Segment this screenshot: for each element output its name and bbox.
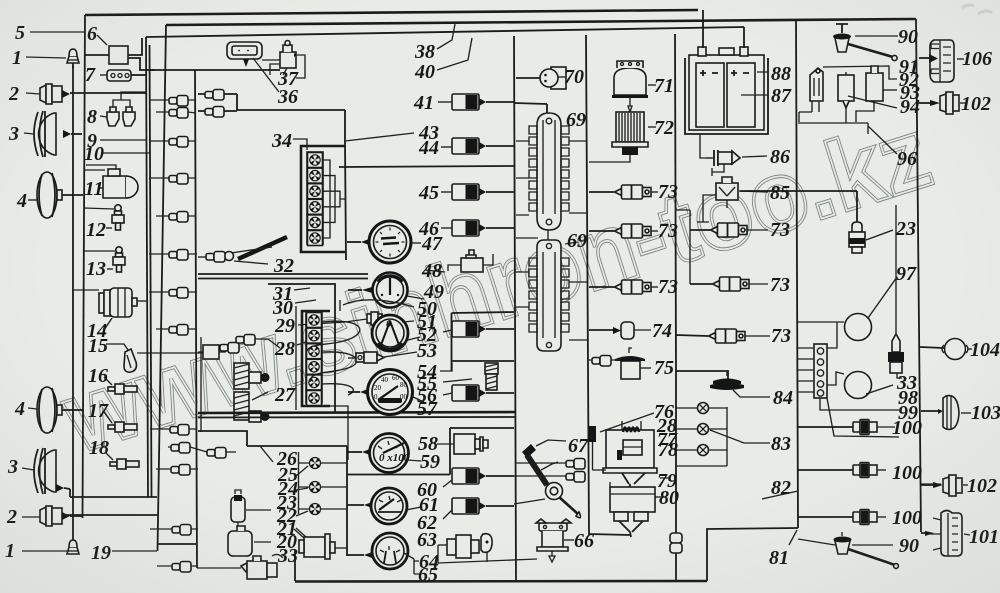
stop switch 67 (522, 440, 580, 518)
paper curl artifact top right (962, 5, 992, 14)
ignition coil 66 (536, 519, 574, 562)
relay 76 77 78 (603, 421, 657, 487)
wire label9 leader (100, 139, 147, 141)
wire loops around block (306, 321, 360, 395)
horn 84 (710, 372, 770, 397)
wire label 28 leader (297, 342, 306, 345)
switch 36 (227, 42, 279, 92)
connector 73 f (676, 329, 770, 343)
terminal block 99 (798, 322, 899, 437)
capacitor 75 (589, 348, 651, 379)
switches 8 (100, 92, 146, 126)
wire bus vertical x166 (158, 25, 167, 551)
wire mid horizontals (516, 237, 538, 239)
socket 102 top (919, 92, 965, 114)
gauge 49 ampermeter small (348, 273, 424, 308)
headlamp 3 top (24, 111, 82, 157)
socket 101 (921, 484, 970, 556)
gauge 64 temp (347, 533, 419, 574)
headlamp 4 top (28, 172, 83, 218)
gauge 52 ammeter (372, 315, 420, 351)
plugs on left bus column (149, 96, 236, 573)
wire 51 leader (402, 321, 414, 322)
inline fuse x676 (670, 533, 682, 553)
gauge 59 tachometer (347, 434, 421, 473)
wire 50 leader (343, 300, 414, 307)
connector 53 (348, 352, 417, 363)
sensor 12 (84, 205, 124, 230)
wire label5 leader (30, 31, 84, 33)
regulator 71 (612, 61, 656, 112)
gauge 61 fuel (347, 488, 421, 524)
wire 92 94 leaders (848, 96, 897, 108)
wire 48 sensor (425, 250, 493, 272)
wire y167 bus (339, 166, 514, 167)
relay 6 (85, 35, 155, 70)
connector 74 (589, 322, 651, 339)
wire bus vertical x196 (195, 70, 197, 568)
battery 87 88 (685, 47, 768, 134)
flasher 7 (100, 70, 146, 81)
sensor 13 (84, 247, 125, 272)
lamp block 34 ladder wires (323, 160, 345, 238)
fuse cylinder 20 (228, 490, 252, 556)
wire 38 leader (437, 24, 455, 49)
wire top frame B (166, 19, 916, 25)
plugs on box step (205, 90, 224, 118)
relay 97 circles (845, 277, 898, 399)
connector 73 b (589, 224, 658, 238)
wire frame corner 81 (707, 528, 798, 581)
gauge 47 clock (347, 221, 421, 263)
wire labels 30 31 leaders (294, 288, 316, 303)
connector 73 e (690, 277, 768, 291)
wire label34 leader (293, 139, 307, 150)
connector 73 d (690, 223, 768, 237)
motor 21 (294, 529, 347, 559)
wire top frame C (146, 27, 744, 37)
wire divider x587 (586, 35, 630, 535)
fuel tank unit 90 top (833, 24, 898, 61)
wire divider x797 (796, 20, 798, 528)
connector 73 c (589, 280, 658, 294)
ignition switch 63 (438, 534, 537, 563)
wire label 27 leader (252, 392, 268, 400)
wire divider x676 (675, 34, 676, 371)
connector 41 (438, 94, 514, 110)
headlamp 4 bottom (28, 387, 84, 433)
connector 56c (443, 385, 514, 401)
resistor 27 hatched pair (234, 363, 270, 422)
regulator 72 finned (589, 112, 656, 162)
lamp block 34 strip (307, 152, 323, 246)
wire 96 box (798, 123, 897, 154)
wire 54 bracket (440, 363, 452, 371)
wire top frame A (85, 10, 698, 15)
wire right frame vertical (916, 19, 921, 532)
watermark www.sinhron-too.kz (50, 97, 943, 475)
connector 60c (443, 468, 514, 487)
wire label19 leader (70, 489, 157, 497)
resistor 93a (838, 72, 854, 123)
wire 43 leader (345, 133, 414, 141)
socket 102 bottom (921, 475, 968, 496)
wire y452 horiz (198, 431, 347, 556)
dark bar 76 (589, 413, 654, 470)
wire x676 lamp feed (676, 371, 728, 580)
connector 100 second (798, 510, 886, 525)
horn 14 (73, 288, 148, 330)
sender 16 (104, 377, 137, 394)
wire label 83 leader (710, 430, 770, 443)
dimmer lever 32 (198, 237, 287, 264)
relay 85 (697, 177, 768, 222)
fuel unit 90 bottom (798, 532, 898, 568)
wire bus vertical x147 (146, 37, 148, 497)
sender 18 (105, 452, 139, 469)
starter switch 86 (706, 150, 767, 176)
gauge 57 speedometer (348, 370, 424, 415)
plugs 67 pair (514, 459, 585, 505)
sender 17 (104, 412, 137, 432)
fuse 29 (298, 312, 382, 325)
connector 45 (441, 184, 514, 200)
lamp block 27-30 strip (302, 311, 330, 406)
relay 91 (799, 66, 897, 122)
wire left frame vertical (83, 15, 86, 518)
lamp block 34 bracket (301, 146, 345, 252)
instrument box top step (198, 94, 346, 260)
headlamp 3 bottom (22, 448, 70, 494)
oil sender 33 right (888, 205, 904, 378)
connector 62c (443, 498, 514, 519)
wire 87 88 leaders (741, 72, 768, 95)
fuse block 69 upper (514, 103, 587, 243)
connector 46 (441, 220, 514, 236)
connector 100 third (798, 420, 895, 435)
connector 100 first (798, 463, 886, 478)
wire label10 leader (103, 152, 150, 154)
wire strip2 frame (296, 300, 348, 460)
connector 73 a (589, 185, 658, 199)
wire bottom frame (295, 580, 707, 583)
lamp socket 104 (920, 339, 972, 360)
fuse block 69 lower (516, 240, 587, 351)
fuel sender 23 (849, 222, 893, 253)
wire x690 stub (676, 210, 690, 284)
relay 79 80 (610, 478, 668, 537)
turn switch 15 (106, 344, 203, 372)
wire 40 leader (437, 38, 472, 70)
wire divider x514 (514, 36, 516, 580)
wire 21 leader (296, 528, 306, 537)
buzzer 70 (516, 67, 566, 89)
relay 58 (347, 428, 514, 475)
lamp 1 top (67, 49, 79, 68)
relay box 28 area (200, 337, 202, 432)
connector 44 (441, 138, 514, 154)
socket 106 (919, 40, 964, 82)
spark plug 33 bottom (197, 554, 283, 579)
relay 93 (856, 66, 897, 122)
sender 55 hatched (443, 363, 498, 390)
wire thick divider y413 (198, 412, 515, 413)
connector 52c (443, 321, 514, 337)
switch 37 (262, 41, 305, 79)
wire double y275 (198, 274, 368, 279)
wire battery feeds (703, 10, 744, 48)
instrument box left edge (147, 69, 280, 71)
marker lamp 2 bottom (22, 506, 82, 526)
wire label1 leader (26, 57, 66, 58)
pilot lamp trio (299, 452, 348, 515)
wire label 82 leader (762, 491, 798, 499)
lamp 1 bottom (22, 540, 79, 554)
marker lamp 2 top (26, 84, 147, 104)
wiper motor 11 (84, 165, 138, 198)
turn lamps trio right (676, 403, 727, 467)
wire bus vertical x154 (150, 45, 152, 497)
wire battery to 86 (700, 134, 712, 158)
wire vertical x73 (72, 66, 74, 540)
beam lamp 103 (921, 395, 971, 430)
wire y190 to 23 (740, 191, 857, 226)
wire trio labels leaders (246, 446, 308, 542)
